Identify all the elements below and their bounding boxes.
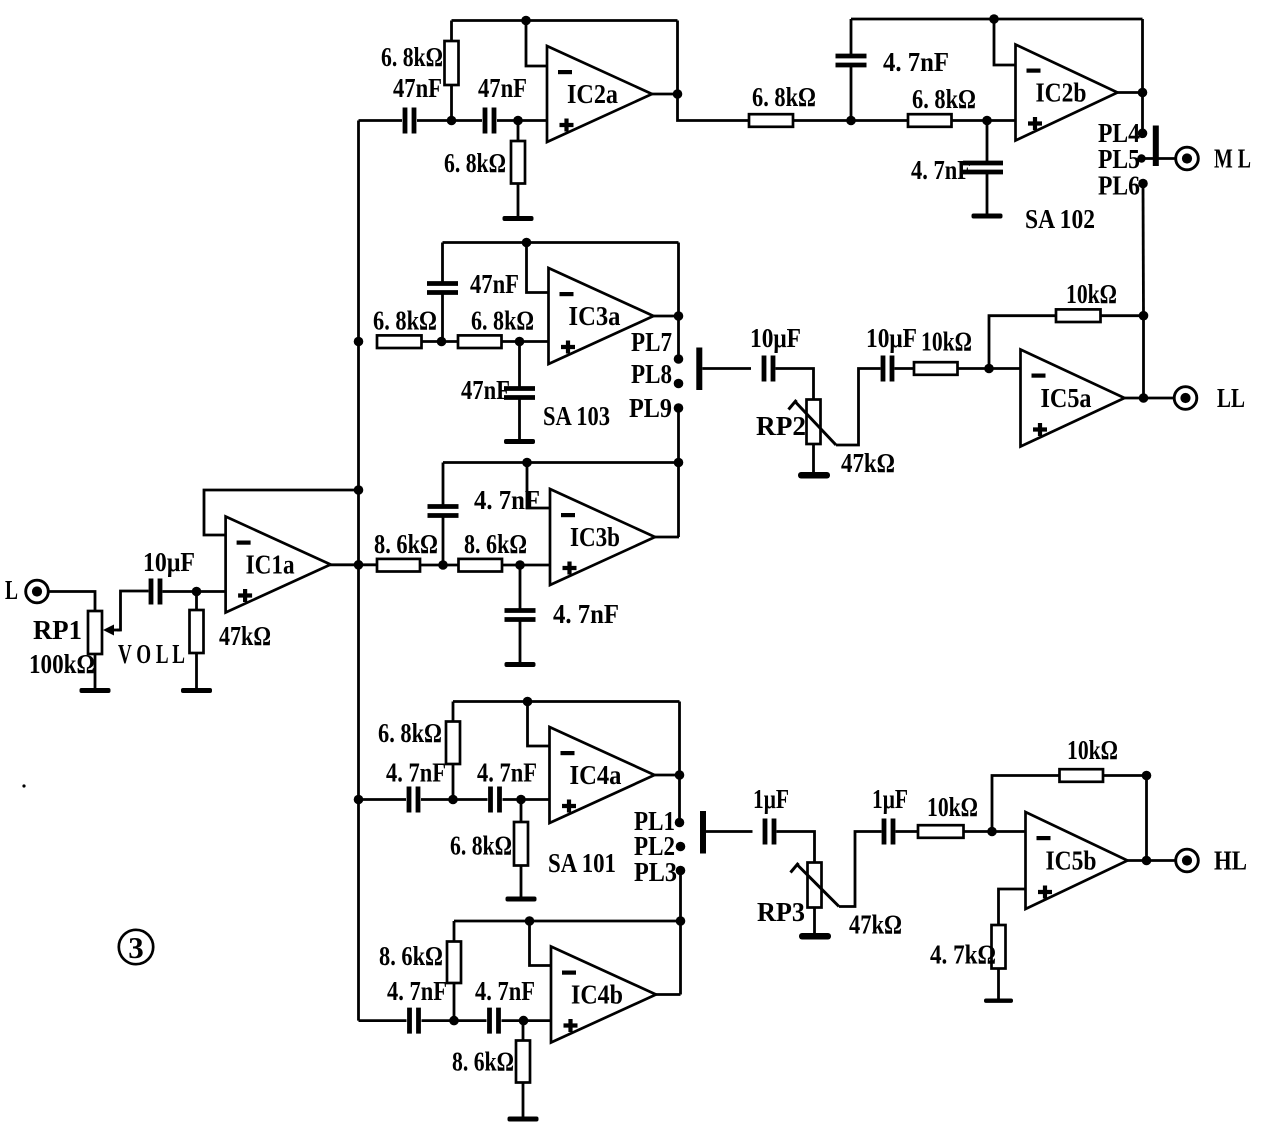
label VOLL bbox=[118, 639, 185, 669]
wire capE2 to opamp bbox=[503, 798, 550, 801]
svg-text:47kΩ: 47kΩ bbox=[849, 910, 902, 940]
terminal HL bbox=[1176, 846, 1247, 876]
svg-text:RP1: RP1 bbox=[33, 615, 82, 645]
label 8.6k IC4b feedback bbox=[379, 941, 443, 971]
node IC1a plus input bbox=[192, 587, 202, 597]
wire bus to cap F1 bbox=[359, 1019, 407, 1022]
svg-text:8. 6kΩ: 8. 6kΩ bbox=[374, 529, 438, 559]
wire IC2a output bbox=[652, 93, 678, 96]
potentiometer RP2 47k bbox=[789, 400, 837, 446]
junction IC3b inv bbox=[522, 458, 532, 468]
svg-text:3: 3 bbox=[128, 930, 144, 965]
label 10k IC5b feedback bbox=[1067, 735, 1118, 765]
svg-text:1μF: 1μF bbox=[753, 784, 789, 814]
svg-text:LL: LL bbox=[1217, 383, 1245, 413]
svg-text:47nF: 47nF bbox=[478, 73, 527, 103]
label 10uF input bbox=[143, 547, 195, 577]
label SA 103 bbox=[543, 401, 610, 431]
wire IC3a inv input bbox=[527, 243, 549, 293]
label 47nF IC3a feedback bbox=[470, 269, 519, 299]
capacitor 10uF input bbox=[151, 579, 160, 605]
label 10k IC5b input bbox=[927, 792, 978, 822]
wire res to node D bbox=[420, 564, 459, 567]
junction IC5b output bbox=[1142, 856, 1152, 866]
wire IC5a feedback left bbox=[989, 316, 1056, 369]
label 47k RP3 bbox=[849, 910, 902, 940]
svg-text:47nF: 47nF bbox=[393, 73, 442, 103]
wire PL6 down to IC5a bbox=[1142, 184, 1145, 316]
resistor 47k bbox=[190, 592, 204, 654]
resistor 6.8k IC4a ground bbox=[514, 800, 528, 866]
label 1uF RP3 a bbox=[753, 784, 789, 814]
pin PL4 bbox=[1098, 118, 1147, 148]
junction IC2a output bbox=[673, 89, 683, 99]
wire plug to cap RP2 bbox=[702, 367, 751, 370]
wire res2 to opamp C bbox=[502, 340, 549, 343]
junction IC5a feedback bbox=[1139, 311, 1149, 321]
ground 47k bbox=[181, 653, 212, 693]
wire IC4b top feedback bbox=[454, 920, 681, 923]
wire cap to node bbox=[163, 590, 226, 593]
wire IC5b plus input bbox=[999, 889, 1026, 925]
label 4.7nF E2 bbox=[477, 758, 537, 788]
capacitor 4.7nF IC3b feedback bbox=[428, 463, 459, 566]
wire cap to RP2 bbox=[776, 369, 814, 400]
wire IC5a feedback right bbox=[1101, 314, 1144, 317]
node B IC3b bbox=[515, 560, 525, 570]
ground IC3b bbox=[505, 660, 536, 668]
svg-text:47kΩ: 47kΩ bbox=[219, 621, 271, 651]
resistor 8.6k IC3b in1 bbox=[377, 559, 420, 572]
wire IC4b output vertical bbox=[679, 921, 682, 995]
capacitor 10uF RP2 b bbox=[883, 356, 892, 382]
label 4.7nF E1 bbox=[386, 758, 446, 788]
wire res to node bbox=[793, 119, 908, 122]
node A IC2b bbox=[846, 116, 856, 126]
op-amp IC1a bbox=[226, 517, 331, 613]
wire plug to cap RP3 bbox=[706, 830, 753, 833]
label 6.8k IC3a in2 bbox=[471, 306, 534, 336]
pin PL8 bbox=[631, 359, 683, 389]
wire IC3a output bbox=[654, 315, 679, 318]
capacitor 4.7nF IC2b ground bbox=[963, 121, 1003, 212]
label 8.6k IC3b in1 bbox=[374, 529, 438, 559]
wire capA1 to capA2 bbox=[417, 119, 482, 122]
wire bus to cap E1 bbox=[359, 798, 407, 801]
svg-text:SA 101: SA 101 bbox=[548, 848, 616, 878]
label 6.8k IC2b in1 bbox=[752, 82, 816, 112]
resistor 6.8k IC4a feedback bbox=[446, 702, 460, 800]
pin PL3 bbox=[634, 857, 685, 887]
wire IC2b output vertical bbox=[1141, 19, 1144, 133]
junction IC5a inv bbox=[984, 364, 994, 374]
label 4.7nF IC3b feedback bbox=[474, 485, 540, 515]
op-amp IC5b bbox=[1026, 812, 1128, 909]
label 10uF RP2 b bbox=[866, 323, 917, 353]
junction bus feedback IC1a bbox=[354, 485, 364, 495]
svg-text:IC4b: IC4b bbox=[571, 980, 623, 1010]
wire IC5b fb vertical bbox=[1145, 776, 1148, 861]
junction IC2a inv bbox=[521, 16, 531, 26]
svg-text:IC4a: IC4a bbox=[570, 760, 622, 790]
wire IC5b feedback right bbox=[1103, 774, 1147, 777]
ground 4.7k bbox=[984, 969, 1013, 1003]
svg-text:6. 8kΩ: 6. 8kΩ bbox=[752, 82, 816, 112]
label 8.6k IC4b ground bbox=[452, 1047, 514, 1077]
junction bus IC4a bbox=[354, 795, 364, 805]
svg-text:47nF: 47nF bbox=[461, 375, 510, 405]
bus wire vertical bbox=[357, 121, 360, 1021]
junction IC2b inv bbox=[989, 14, 999, 24]
wire capA2 to opamp bbox=[497, 119, 547, 122]
op-amp IC3a bbox=[549, 268, 654, 364]
wire RP1 wiper to cap bbox=[117, 591, 149, 630]
node B IC4a bbox=[516, 795, 526, 805]
svg-text:SA 103: SA 103 bbox=[543, 401, 610, 431]
node B IC4b bbox=[519, 1016, 529, 1026]
svg-text:IC2b: IC2b bbox=[1036, 78, 1087, 108]
wire cap to res IC5a bbox=[895, 367, 915, 370]
pin PL2 bbox=[634, 831, 685, 861]
node B IC2a bbox=[513, 116, 523, 126]
input terminal L bbox=[5, 575, 48, 605]
svg-text:IC3b: IC3b bbox=[570, 522, 620, 552]
capacitor 4.7nF E2 bbox=[491, 787, 500, 813]
op-amp IC2a bbox=[547, 46, 652, 142]
label 1uF RP3 b bbox=[872, 784, 908, 814]
label 8.6k IC3b in2 bbox=[464, 529, 527, 559]
junction IC5a output bbox=[1139, 393, 1149, 403]
wire IC3b top feedback bbox=[443, 461, 679, 464]
svg-text:47nF: 47nF bbox=[470, 269, 519, 299]
label 10k IC5a feedback bbox=[1066, 279, 1117, 309]
svg-text:6. 8kΩ: 6. 8kΩ bbox=[912, 84, 976, 114]
wire IC5a output bbox=[1124, 397, 1175, 400]
pin PL9 bbox=[629, 393, 683, 423]
label 6.8k IC3a in1 bbox=[373, 306, 437, 336]
label 10uF RP2 a bbox=[750, 323, 801, 353]
label 47nF A1 bbox=[393, 73, 442, 103]
svg-text:IC2a: IC2a bbox=[567, 79, 618, 109]
capacitor 47nF IC3a ground bbox=[504, 342, 535, 437]
op-amp IC2b bbox=[1016, 45, 1118, 141]
wire IC3b output vertical bbox=[677, 463, 680, 538]
resistor 4.7k IC5b bbox=[992, 925, 1006, 969]
pin PL1 bbox=[634, 806, 684, 836]
svg-text:IC5a: IC5a bbox=[1041, 383, 1092, 413]
label RP1 bbox=[33, 615, 82, 645]
svg-text:HL: HL bbox=[1214, 846, 1247, 876]
label 4.7nF IC2b feedback bbox=[883, 47, 949, 77]
svg-text:4. 7nF: 4. 7nF bbox=[474, 485, 540, 515]
node B IC2b bbox=[982, 116, 992, 126]
wire PL3 down bbox=[679, 871, 682, 922]
resistor 10k IC5b input bbox=[918, 825, 964, 838]
ground IC4a bbox=[506, 866, 537, 902]
junction IC4b top right bbox=[676, 916, 686, 926]
label 6.8k IC2a ground bbox=[444, 148, 506, 178]
svg-text:10kΩ: 10kΩ bbox=[921, 327, 972, 357]
wire IC5a fb vertical bbox=[1142, 316, 1145, 398]
wire IC5b output bbox=[1126, 859, 1176, 862]
wire res2 to opamp D bbox=[502, 564, 550, 567]
capacitor 4.7nF F2 bbox=[490, 1008, 499, 1034]
resistor 6.8k IC2b in2 bbox=[908, 114, 952, 127]
svg-text:6. 8kΩ: 6. 8kΩ bbox=[450, 831, 512, 861]
potentiometer RP1 100k bbox=[88, 611, 121, 654]
node A IC3b bbox=[438, 560, 448, 570]
junction IC4a output bbox=[675, 770, 685, 780]
svg-text:4. 7nF: 4. 7nF bbox=[911, 155, 971, 185]
svg-text:PL3: PL3 bbox=[634, 857, 677, 887]
wire bus to cap A1 bbox=[359, 119, 403, 122]
svg-text:PL7: PL7 bbox=[631, 327, 672, 357]
svg-text:RP3: RP3 bbox=[757, 897, 805, 927]
node A IC4a bbox=[448, 795, 458, 805]
label 6.8k IC2b in2 bbox=[912, 84, 976, 114]
wire capF1 to capF2 bbox=[422, 1019, 487, 1022]
wire IC4a output vertical bbox=[678, 702, 681, 823]
wire IC2a inv input bbox=[526, 21, 547, 67]
svg-text:8. 6kΩ: 8. 6kΩ bbox=[379, 941, 443, 971]
junction IC3a inv bbox=[522, 238, 532, 248]
wire IC1a output bbox=[330, 563, 378, 566]
junction IC4b inv bbox=[525, 916, 535, 926]
pin PL5 wire bbox=[1098, 144, 1176, 174]
label SA 102 bbox=[1025, 204, 1095, 234]
svg-text:8. 6kΩ: 8. 6kΩ bbox=[464, 529, 527, 559]
svg-text:47kΩ: 47kΩ bbox=[841, 448, 895, 478]
node A IC2a bbox=[447, 116, 457, 126]
wire IC2b inv input bbox=[994, 19, 1016, 65]
svg-text:6. 8kΩ: 6. 8kΩ bbox=[471, 306, 534, 336]
junction IC5b feedback bbox=[1142, 771, 1152, 781]
capacitor 47nF A2 bbox=[485, 108, 494, 134]
svg-text:PL5: PL5 bbox=[1098, 144, 1140, 174]
wire cap to RP3 bbox=[777, 832, 815, 863]
potentiometer RP3 47k bbox=[791, 863, 840, 908]
wire res2 to opamp bbox=[952, 119, 1016, 122]
node B IC3a bbox=[515, 337, 525, 347]
resistor 10k IC5a feedback bbox=[1056, 309, 1101, 322]
ground RP2 bbox=[798, 444, 830, 479]
svg-text:V O L L: V O L L bbox=[118, 639, 185, 669]
capacitor 4.7nF E1 bbox=[409, 787, 418, 813]
wire IC4a top feedback bbox=[453, 700, 680, 703]
svg-text:10kΩ: 10kΩ bbox=[1066, 279, 1117, 309]
svg-text:4. 7nF: 4. 7nF bbox=[553, 599, 619, 629]
svg-text:6. 8kΩ: 6. 8kΩ bbox=[381, 42, 443, 72]
svg-text:SA 102: SA 102 bbox=[1025, 204, 1095, 234]
label 4.7k IC5b bbox=[930, 940, 996, 970]
wire PL9 down bbox=[677, 408, 680, 463]
wire IC3a top feedback bbox=[443, 241, 679, 244]
label 6.8k IC4a feedback bbox=[378, 718, 442, 748]
wire IC2a output vertical bbox=[678, 21, 750, 121]
capacitor 47nF IC3a feedback bbox=[427, 243, 458, 342]
wire IC4a output bbox=[655, 774, 680, 777]
wire IC1a feedback bbox=[204, 490, 359, 535]
junction IC3b top right bbox=[674, 458, 684, 468]
svg-text:10kΩ: 10kΩ bbox=[927, 792, 978, 822]
wire capF2 to opamp bbox=[502, 1019, 552, 1022]
svg-text:PL8: PL8 bbox=[631, 359, 672, 389]
ground IC4b bbox=[508, 1083, 539, 1122]
svg-text:100kΩ: 100kΩ bbox=[29, 649, 95, 679]
label 47k RP2 bbox=[841, 448, 895, 478]
capacitor 10uF RP2 a bbox=[764, 356, 773, 382]
svg-text:6. 8kΩ: 6. 8kΩ bbox=[378, 718, 442, 748]
label 47nF A2 bbox=[478, 73, 527, 103]
ground RP1 bbox=[80, 654, 111, 693]
label 100k bbox=[29, 649, 95, 679]
svg-text:L: L bbox=[5, 575, 18, 605]
junction IC4a inv bbox=[523, 697, 533, 707]
svg-text:4. 7nF: 4. 7nF bbox=[883, 47, 949, 77]
wire IC5b feedback left bbox=[992, 776, 1060, 832]
junction bus IC3a bbox=[354, 337, 364, 347]
ground IC2b bbox=[972, 211, 1003, 219]
wire IC3a output vertical bbox=[677, 243, 680, 360]
label 47k bbox=[219, 621, 271, 651]
ground IC3a bbox=[504, 437, 535, 445]
wire res to IC5b bbox=[964, 830, 1026, 833]
node A IC4b bbox=[449, 1016, 459, 1026]
wire capE1 to capE2 bbox=[421, 798, 488, 801]
wire IC2a top feedback bbox=[452, 19, 678, 22]
wire IC2b top feedback bbox=[851, 18, 1143, 21]
op-amp IC4a bbox=[550, 727, 655, 823]
resistor 6.8k IC3a in1 bbox=[377, 335, 422, 348]
wire IC2b output bbox=[1116, 91, 1143, 94]
wire RP3 wiper up bbox=[839, 832, 882, 907]
label 4.7nF F1 bbox=[387, 976, 447, 1006]
resistor 6.8k IC3a in2 bbox=[458, 335, 502, 348]
junction IC2b output bbox=[1138, 88, 1148, 98]
resistor 10k IC5b feedback bbox=[1060, 769, 1104, 782]
svg-text:PL6: PL6 bbox=[1098, 171, 1140, 201]
label 4.7nF IC3b ground bbox=[553, 599, 619, 629]
svg-text:10kΩ: 10kΩ bbox=[1067, 735, 1118, 765]
resistor 6.8k IC2b in1 bbox=[749, 114, 793, 127]
svg-text:4. 7nF: 4. 7nF bbox=[386, 758, 446, 788]
resistor 8.6k IC4b feedback bbox=[447, 921, 461, 1021]
terminal LL bbox=[1174, 383, 1245, 413]
label SA 101 bbox=[548, 848, 616, 878]
resistor 8.6k IC4b ground bbox=[516, 1021, 530, 1083]
resistor 6.8k IC2a feedback bbox=[445, 21, 459, 121]
resistor 10k IC5a input bbox=[914, 362, 958, 375]
svg-text:6. 8kΩ: 6. 8kΩ bbox=[444, 148, 506, 178]
figure number 3 circled bbox=[119, 930, 153, 965]
svg-text:6. 8kΩ: 6. 8kΩ bbox=[373, 306, 437, 336]
label RP3 bbox=[757, 897, 805, 927]
terminal ML bbox=[1176, 144, 1251, 174]
junction bus IC1a output bbox=[354, 560, 364, 570]
label 6.8k IC4a ground bbox=[450, 831, 512, 861]
label 47nF IC3a ground bbox=[461, 375, 510, 405]
op-amp IC3b bbox=[550, 489, 655, 585]
junction IC3a output bbox=[674, 311, 684, 321]
svg-text:10μF: 10μF bbox=[143, 547, 195, 577]
wire cap to res IC5b bbox=[896, 830, 919, 833]
wire RP2 wiper up bbox=[836, 369, 881, 446]
node A IC3a bbox=[437, 337, 447, 347]
label RP2 bbox=[756, 411, 806, 441]
plug bar SA103 bbox=[696, 348, 702, 391]
svg-text:4. 7nF: 4. 7nF bbox=[387, 976, 447, 1006]
label 10k IC5a input bbox=[921, 327, 972, 357]
svg-text:10μF: 10μF bbox=[866, 323, 917, 353]
svg-text:4. 7nF: 4. 7nF bbox=[477, 758, 537, 788]
ground RP3 bbox=[799, 908, 831, 940]
pin PL6 bbox=[1098, 171, 1148, 201]
op-amp IC4b bbox=[551, 947, 656, 1043]
svg-text:IC5b: IC5b bbox=[1046, 846, 1097, 876]
op-amp IC5a bbox=[1021, 350, 1125, 447]
capacitor 1uF RP3 b bbox=[884, 819, 893, 845]
svg-text:10μF: 10μF bbox=[750, 323, 801, 353]
wire IC4b output bbox=[656, 993, 681, 996]
svg-text:1μF: 1μF bbox=[872, 784, 908, 814]
capacitor 4.7nF F1 bbox=[410, 1008, 419, 1034]
label 4.7nF IC2b ground bbox=[911, 155, 971, 185]
stray mark bbox=[22, 784, 25, 787]
capacitor 4.7nF IC2b feedback bbox=[836, 19, 867, 121]
ground IC2a bbox=[503, 184, 534, 222]
wire L to RP1 bbox=[48, 592, 95, 612]
wire IC4a inv input bbox=[528, 702, 550, 747]
label 6.8k IC2a feedback bbox=[381, 42, 443, 72]
svg-text:4. 7kΩ: 4. 7kΩ bbox=[930, 940, 996, 970]
resistor 6.8k IC2a ground bbox=[511, 121, 525, 184]
svg-text:IC3a: IC3a bbox=[569, 301, 621, 331]
svg-text:RP2: RP2 bbox=[756, 411, 806, 441]
svg-text:PL9: PL9 bbox=[629, 393, 672, 423]
capacitor 1uF RP3 a bbox=[765, 819, 774, 845]
resistor 8.6k IC3b in2 bbox=[459, 559, 503, 572]
plug bar SA102 bbox=[1153, 126, 1159, 167]
pin PL7 bbox=[631, 327, 683, 364]
junction IC5b inv bbox=[987, 827, 997, 837]
svg-text:IC1a: IC1a bbox=[246, 550, 295, 580]
capacitor 47nF A1 bbox=[405, 108, 414, 134]
svg-text:4. 7nF: 4. 7nF bbox=[475, 976, 535, 1006]
wire IC3b inv input bbox=[527, 463, 550, 509]
svg-text:M L: M L bbox=[1214, 144, 1251, 174]
wire res to node C bbox=[422, 340, 459, 343]
plug bar SA101 bbox=[700, 811, 706, 854]
wire IC4b inv input bbox=[530, 921, 552, 966]
wire IC3b output bbox=[655, 536, 679, 539]
capacitor 4.7nF IC3b ground bbox=[505, 565, 536, 660]
label 4.7nF F2 bbox=[475, 976, 535, 1006]
wire res to IC5a bbox=[958, 367, 1021, 370]
svg-text:8. 6kΩ: 8. 6kΩ bbox=[452, 1047, 514, 1077]
